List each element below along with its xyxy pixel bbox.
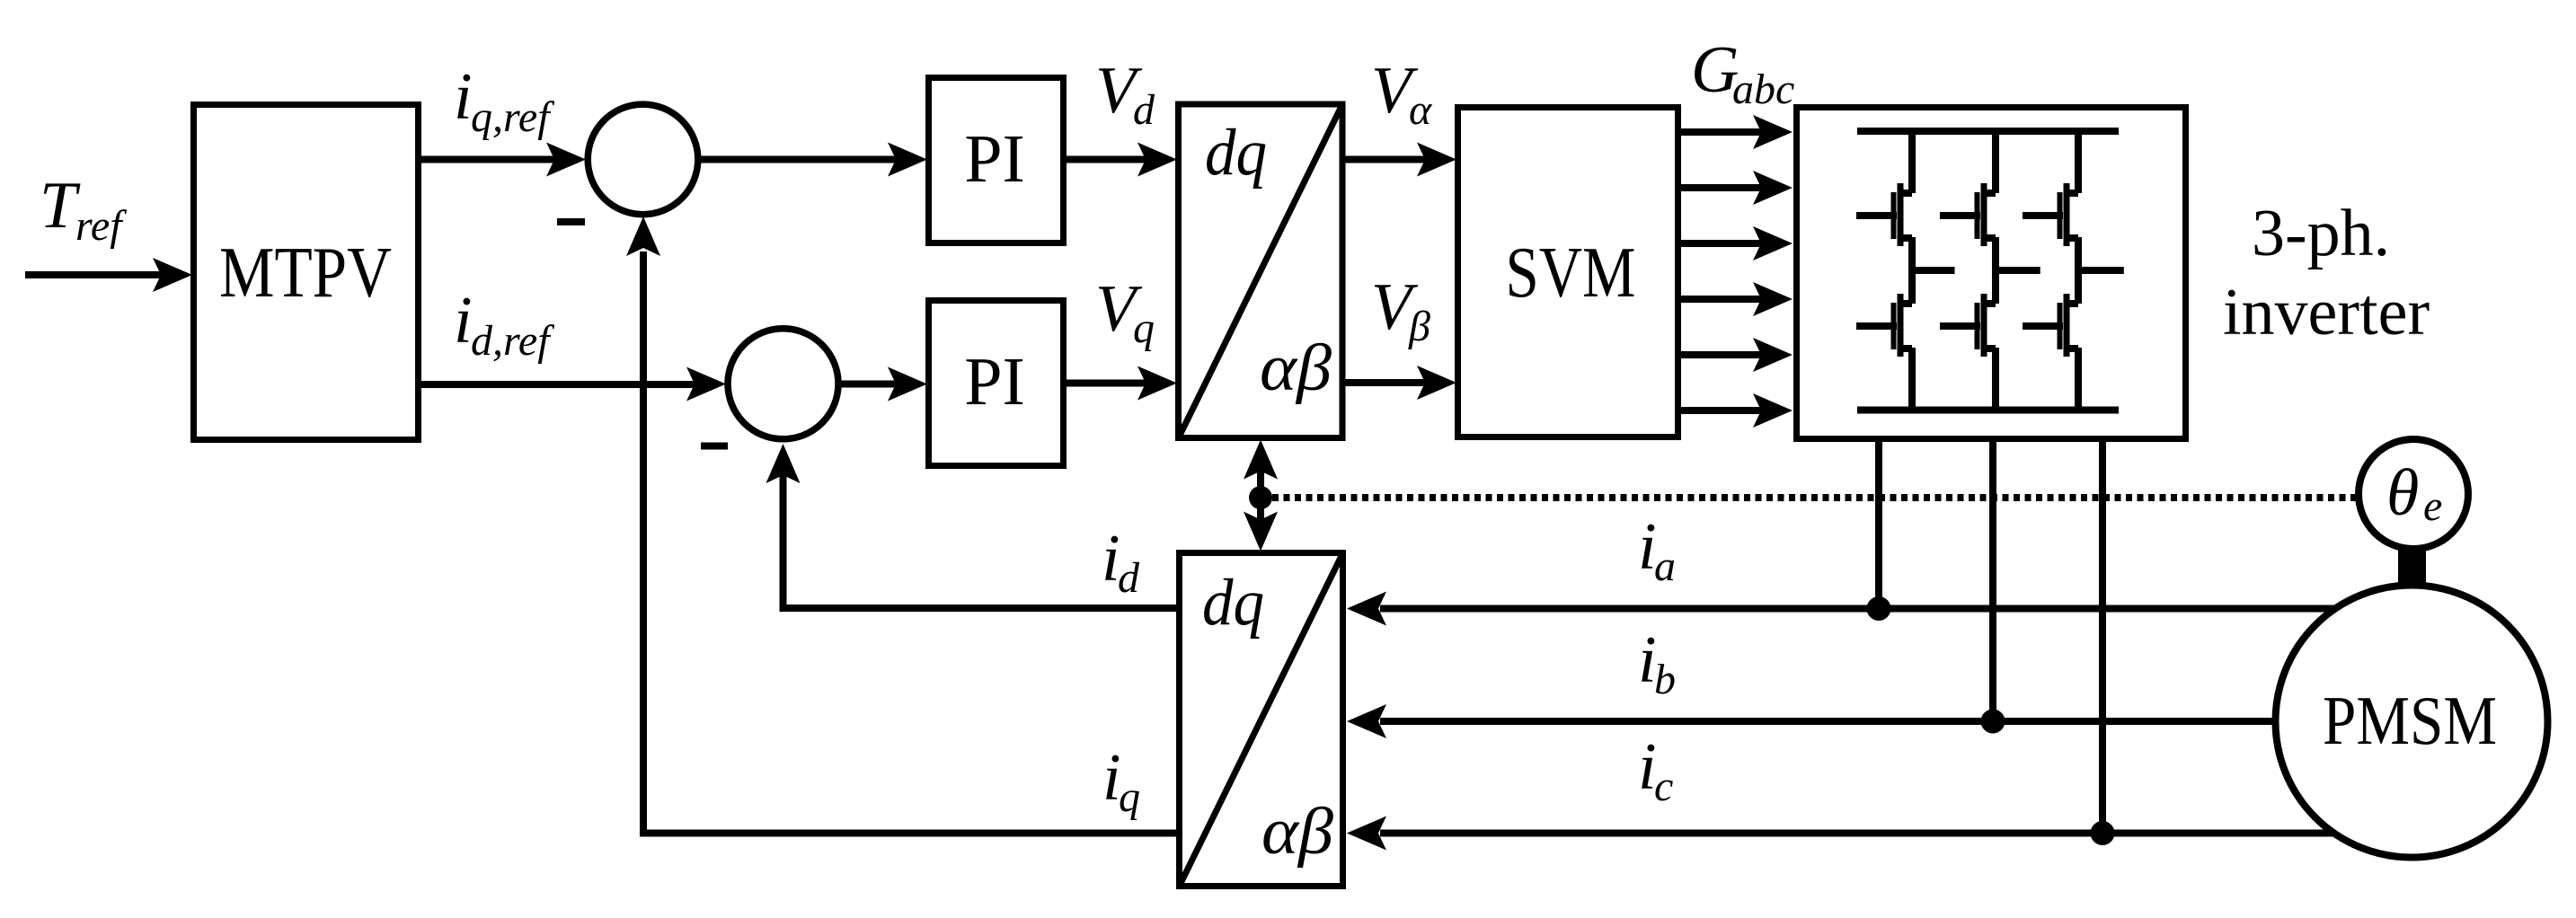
label Gabc [1691, 33, 1794, 113]
svg-text:a: a [1654, 543, 1676, 590]
svg-text:d: d [1133, 86, 1155, 134]
wire phase tap b [1996, 267, 2040, 274]
label id,ref [454, 284, 554, 365]
block 3-phase inverter [1797, 108, 2186, 439]
wire phase tap a [1912, 267, 1955, 274]
wire PI2 to dq1 Vq [1063, 366, 1177, 401]
label 3-ph. inverter [2223, 197, 2430, 349]
wire SVM gate signal 5 to inverter [1677, 338, 1793, 372]
label id [1102, 522, 1140, 602]
svg-text:PI: PI [964, 121, 1025, 197]
svg-text:dq: dq [1202, 566, 1264, 640]
transistor Q2 [1856, 294, 1912, 357]
minus sign S2 [701, 443, 728, 450]
wire dq1 to SVM Valpha [1342, 143, 1456, 177]
wire S1 to PI1 [699, 143, 927, 177]
wire iq,ref MTPV to S1 [420, 143, 586, 177]
label ia [1638, 510, 1676, 590]
minus sign S1 [557, 218, 585, 225]
motor shaft coupling [2398, 549, 2426, 586]
wire phase c down from inverter [2099, 438, 2106, 834]
summing junction S1 [588, 104, 698, 215]
wire SVM gate signal 1 to inverter [1677, 115, 1793, 149]
block PMSM motor [2276, 586, 2548, 858]
transistor Q4 [1940, 294, 1996, 357]
svg-text:i: i [454, 60, 473, 134]
block MTPV [194, 105, 419, 440]
wire S2 to PI2 [840, 367, 927, 402]
svg-text:PI: PI [964, 344, 1025, 419]
svg-text:β: β [1408, 303, 1430, 350]
wire phase b down from inverter [1989, 438, 1996, 721]
wire dq1 to SVM Vbeta [1342, 366, 1456, 400]
label Tref [40, 169, 127, 250]
node junction phase b [1981, 710, 2005, 734]
label Vbeta [1371, 270, 1430, 350]
svg-text:α: α [1409, 86, 1432, 134]
wire SVM gate signal 2 to inverter [1677, 171, 1793, 205]
svg-text:abc: abc [1732, 66, 1794, 113]
svg-text:PMSM: PMSM [2323, 682, 2497, 759]
transistor Q6 [2023, 294, 2078, 357]
svg-text:q: q [1133, 305, 1155, 352]
wire phase tap c [2078, 267, 2124, 274]
block SVM modulator [1458, 108, 1678, 437]
wire iq feedback dq2 to S1 [626, 216, 1179, 834]
wire PI1 to dq1 Vd [1063, 143, 1177, 177]
summing junction S2 [728, 329, 838, 439]
label Vd [1095, 54, 1155, 134]
wire inverter leg at x=2128 [1908, 128, 1916, 413]
label ic [1638, 730, 1673, 810]
wire SVM gate signal 3 to inverter [1677, 226, 1793, 260]
svg-text:αβ: αβ [1260, 331, 1332, 405]
svg-text:MTPV: MTPV [219, 232, 392, 313]
wire ic inverter to dq2 [1347, 816, 2345, 851]
wire ib inverter to dq2 [1347, 704, 2300, 738]
transistor Q1 [1856, 183, 1912, 246]
sensor theta_e encoder [2359, 439, 2468, 549]
svg-text:ref: ref [75, 202, 127, 250]
wire id feedback dq2 to S2 [766, 444, 1180, 608]
label Vq [1095, 272, 1155, 352]
node junction theta_e tap [1249, 486, 1272, 509]
wire theta_e dotted feedback [1272, 494, 2372, 501]
svg-text:dq: dq [1205, 116, 1267, 190]
svg-text:i: i [454, 284, 473, 357]
wire Tref input [25, 258, 192, 292]
node junction phase a [1867, 596, 1891, 621]
svg-text:b: b [1654, 656, 1676, 703]
svg-text:q: q [1119, 773, 1140, 821]
block PI2 current controller [929, 301, 1064, 466]
wire inverter leg at x=2313 [2075, 128, 2082, 413]
svg-text:inverter: inverter [2223, 276, 2430, 349]
label Valpha [1371, 54, 1432, 134]
block U1 dq to alphabeta transform [1179, 104, 1343, 438]
svg-text:SVM: SVM [1506, 234, 1636, 313]
label iq [1102, 741, 1140, 821]
svg-text:e: e [2423, 482, 2442, 530]
wire ia inverter to dq2 [1347, 592, 2354, 626]
wire theta_e bidirectional arrow to dq blocks [1244, 440, 1278, 552]
svg-text:d: d [1118, 554, 1140, 602]
wire id,ref MTPV to S2 [420, 367, 726, 402]
svg-text:q,ref: q,ref [471, 93, 554, 141]
wire SVM gate signal 4 to inverter [1677, 282, 1793, 316]
node junction phase c [2091, 821, 2115, 845]
transistor Q5 [2023, 183, 2078, 246]
svg-text:αβ: αβ [1261, 795, 1333, 869]
transistor Q3 [1940, 183, 1996, 246]
svg-text:d,ref: d,ref [471, 317, 554, 365]
wire phase a down from inverter [1875, 438, 1882, 609]
label iq,ref [454, 60, 554, 141]
wire SVM gate signal 6 to inverter [1677, 393, 1793, 428]
svg-text:θ: θ [2386, 456, 2419, 530]
wire inverter leg at x=2221 [1992, 128, 1999, 413]
label ib [1638, 623, 1676, 703]
svg-text:c: c [1654, 763, 1673, 810]
svg-text:3-ph.: 3-ph. [2252, 197, 2390, 270]
block U2 alphabeta to dq transform [1180, 553, 1343, 887]
block PI1 current controller [929, 78, 1064, 243]
